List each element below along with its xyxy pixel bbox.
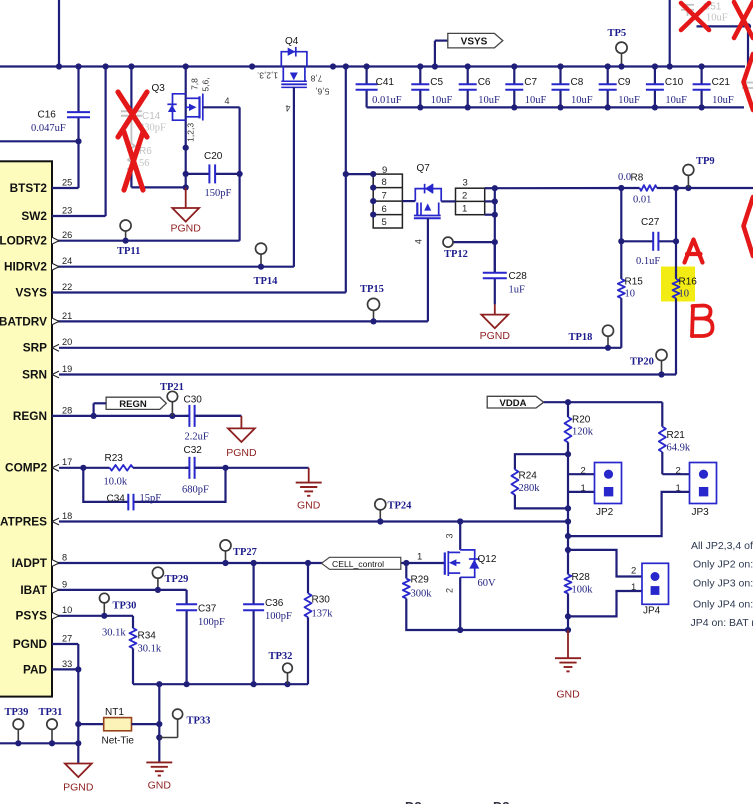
svg-text:JP4: JP4 (643, 606, 661, 617)
svg-text:9: 9 (62, 579, 67, 589)
svg-text:PGND: PGND (480, 330, 511, 342)
svg-text:5,6,: 5,6, (201, 77, 211, 91)
svg-text:GND: GND (556, 689, 580, 701)
svg-text:10: 10 (679, 289, 690, 300)
svg-text:TP9: TP9 (696, 156, 715, 167)
svg-text:TP27: TP27 (233, 547, 257, 558)
svg-text:JP4 on: BAT removed: JP4 on: BAT removed (691, 617, 753, 629)
svg-text:1: 1 (631, 582, 636, 593)
svg-text:BATDRV: BATDRV (0, 314, 47, 328)
svg-text:IBAT: IBAT (20, 583, 47, 597)
svg-text:BTST2: BTST2 (10, 181, 48, 195)
svg-text:680pF: 680pF (182, 485, 209, 496)
svg-text:26: 26 (62, 230, 72, 240)
svg-text:GND: GND (297, 499, 321, 511)
svg-text:HIDRV2: HIDRV2 (4, 260, 47, 274)
svg-text:10uF: 10uF (525, 95, 547, 106)
svg-text:VSYS: VSYS (461, 36, 488, 47)
svg-text:8: 8 (382, 177, 387, 188)
svg-text:137k: 137k (312, 608, 334, 619)
svg-text:1,2,3: 1,2,3 (185, 123, 195, 142)
svg-text:R28: R28 (572, 572, 591, 583)
svg-text:10uF: 10uF (571, 95, 593, 106)
svg-text:2: 2 (462, 190, 467, 201)
svg-text:60V: 60V (478, 578, 497, 589)
svg-text:D2: D2 (405, 799, 422, 804)
svg-text:TP12: TP12 (444, 249, 468, 260)
svg-text:Q12: Q12 (478, 554, 497, 565)
svg-text:100pF: 100pF (265, 611, 292, 622)
svg-text:JP3: JP3 (692, 507, 710, 518)
svg-text:CELL_control: CELL_control (332, 559, 384, 569)
svg-text:R21: R21 (667, 430, 686, 441)
svg-text:2: 2 (676, 465, 681, 476)
svg-text:300k: 300k (411, 589, 433, 600)
svg-text:100pF: 100pF (198, 617, 225, 628)
svg-text:150pF: 150pF (205, 188, 232, 199)
svg-text:10: 10 (62, 605, 72, 615)
svg-text:TP39: TP39 (5, 707, 29, 718)
svg-text:TP5: TP5 (608, 28, 627, 39)
svg-text:TP11: TP11 (117, 246, 140, 257)
svg-text:8: 8 (62, 552, 67, 562)
svg-text:2: 2 (631, 565, 636, 576)
svg-text:C8: C8 (571, 77, 584, 88)
svg-text:27: 27 (62, 633, 72, 643)
svg-text:21: 21 (62, 311, 72, 321)
svg-text:33: 33 (62, 659, 72, 669)
svg-text:C20: C20 (204, 151, 223, 162)
svg-text:SW2: SW2 (21, 209, 47, 223)
svg-text:6: 6 (382, 204, 387, 215)
svg-text:10uF: 10uF (706, 13, 728, 24)
svg-text:7,8: 7,8 (190, 78, 200, 90)
svg-text:1: 1 (417, 551, 422, 562)
svg-text:PAD: PAD (23, 662, 48, 676)
svg-text:BATPRES: BATPRES (0, 514, 47, 528)
svg-text:D3: D3 (493, 799, 510, 804)
svg-text:4: 4 (225, 96, 230, 106)
svg-text:VSYS: VSYS (16, 285, 48, 299)
svg-text:C21: C21 (712, 77, 731, 88)
svg-text:1,2,3.: 1,2,3. (257, 71, 278, 81)
svg-text:Net-Tie: Net-Tie (102, 736, 135, 747)
svg-text:C32: C32 (184, 445, 203, 456)
svg-text:10uF: 10uF (618, 95, 640, 106)
svg-text:5: 5 (382, 217, 387, 228)
svg-text:TP29: TP29 (165, 574, 189, 585)
svg-text:PSYS: PSYS (16, 609, 48, 623)
svg-text:C6: C6 (478, 77, 491, 88)
svg-text:Q4: Q4 (285, 36, 299, 47)
svg-text:280k: 280k (519, 483, 541, 494)
svg-text:R34: R34 (138, 630, 157, 641)
svg-text:10uF: 10uF (712, 95, 734, 106)
svg-text:15pF: 15pF (140, 493, 162, 504)
svg-text:LODRV2: LODRV2 (0, 234, 47, 248)
svg-text:64.9k: 64.9k (667, 442, 691, 453)
svg-text:C9: C9 (618, 77, 631, 88)
svg-text:25: 25 (62, 177, 72, 187)
svg-text:COMP2: COMP2 (5, 461, 47, 475)
svg-text:R23: R23 (105, 453, 124, 464)
svg-text:30.1k: 30.1k (138, 643, 162, 654)
svg-text:PGND: PGND (63, 782, 94, 794)
svg-text:JP2: JP2 (596, 507, 614, 518)
svg-text:TP18: TP18 (569, 332, 593, 343)
svg-text:R16: R16 (679, 276, 698, 287)
svg-text:0.047uF: 0.047uF (31, 123, 66, 134)
svg-text:TP33: TP33 (187, 715, 211, 726)
svg-text:TP21: TP21 (160, 382, 184, 393)
svg-text:Q7: Q7 (417, 163, 431, 174)
svg-text:R30: R30 (312, 594, 331, 605)
svg-text:PGND: PGND (171, 222, 202, 234)
svg-text:1uF: 1uF (509, 285, 526, 296)
svg-text:0.1uF: 0.1uF (636, 256, 660, 267)
svg-text:Only JP2 on: 1 cell: Only JP2 on: 1 cell (693, 559, 753, 571)
svg-text:NT1: NT1 (105, 707, 124, 718)
svg-text:IADPT: IADPT (12, 556, 48, 570)
svg-text:0.0: 0.0 (618, 172, 631, 183)
svg-text:C5: C5 (430, 77, 443, 88)
svg-text:C27: C27 (641, 217, 660, 228)
svg-text:Only JP4 on: 3 cells: Only JP4 on: 3 cells (693, 598, 753, 610)
svg-text:10: 10 (625, 289, 636, 300)
svg-text:SRN: SRN (22, 367, 47, 381)
svg-text:3: 3 (463, 177, 468, 188)
svg-text:4: 4 (285, 103, 290, 113)
svg-text:7,8: 7,8 (310, 74, 322, 84)
svg-text:C41: C41 (376, 77, 395, 88)
svg-text:C30: C30 (184, 395, 203, 406)
svg-text:56: 56 (139, 158, 150, 169)
svg-text:Q3: Q3 (152, 83, 166, 94)
svg-text:17: 17 (62, 457, 72, 467)
svg-text:C37: C37 (198, 604, 217, 615)
svg-text:120k: 120k (572, 426, 594, 437)
svg-text:10uF: 10uF (431, 95, 453, 106)
svg-text:C10: C10 (665, 77, 684, 88)
svg-text:C28: C28 (509, 271, 528, 282)
svg-text:SRP: SRP (23, 341, 47, 355)
svg-text:VDDA: VDDA (500, 398, 527, 409)
svg-text:TP32: TP32 (269, 651, 293, 662)
svg-text:10uF: 10uF (478, 95, 500, 106)
svg-text:3: 3 (445, 533, 455, 538)
svg-text:10uF: 10uF (665, 95, 687, 106)
svg-text:R24: R24 (519, 470, 538, 481)
svg-text:TP30: TP30 (113, 601, 137, 612)
svg-text:GND: GND (148, 780, 172, 792)
svg-text:18: 18 (62, 511, 72, 521)
svg-text:2.2uF: 2.2uF (185, 431, 209, 442)
svg-text:7: 7 (382, 190, 387, 201)
svg-text:C34: C34 (107, 494, 126, 505)
svg-text:REGN: REGN (13, 409, 47, 423)
svg-text:R6: R6 (139, 146, 152, 157)
svg-text:PGND: PGND (13, 637, 48, 651)
svg-text:5,6,: 5,6, (315, 87, 329, 97)
svg-text:C14: C14 (142, 111, 161, 122)
svg-text:23: 23 (62, 205, 72, 215)
svg-text:R20: R20 (572, 414, 591, 425)
svg-text:PGND: PGND (226, 447, 257, 459)
svg-text:22: 22 (62, 282, 72, 292)
svg-text:10.0k: 10.0k (104, 476, 128, 487)
svg-text:2: 2 (581, 465, 586, 476)
svg-text:C16: C16 (38, 109, 57, 120)
svg-text:REGN: REGN (119, 399, 147, 410)
svg-text:19: 19 (62, 364, 72, 374)
svg-text:2: 2 (445, 588, 455, 593)
svg-text:24: 24 (62, 256, 72, 266)
svg-text:20: 20 (62, 337, 72, 347)
svg-text:28: 28 (62, 405, 72, 415)
svg-text:100k: 100k (572, 584, 594, 595)
svg-text:C7: C7 (524, 77, 537, 88)
svg-text:TP20: TP20 (630, 357, 654, 368)
svg-text:0.01uF: 0.01uF (372, 95, 402, 106)
svg-text:TP24: TP24 (388, 500, 413, 511)
svg-text:4: 4 (414, 239, 424, 244)
svg-text:All JP2,3,4 off: 4 cells: All JP2,3,4 off: 4 cells (691, 540, 753, 552)
svg-text:C36: C36 (265, 598, 284, 609)
svg-text:1: 1 (581, 483, 586, 494)
svg-text:0.01: 0.01 (633, 195, 651, 206)
svg-text:1: 1 (462, 204, 467, 215)
svg-text:Only JP3 on: 2 cells: Only JP3 on: 2 cells (693, 578, 753, 590)
svg-text:R29: R29 (411, 575, 430, 586)
svg-text:TP14: TP14 (254, 276, 279, 287)
svg-text:9: 9 (382, 165, 387, 176)
svg-text:R15: R15 (625, 276, 644, 287)
svg-text:TP31: TP31 (39, 707, 63, 718)
svg-text:TP15: TP15 (360, 284, 384, 295)
svg-text:30.1k: 30.1k (102, 627, 126, 638)
svg-text:R8: R8 (631, 173, 644, 184)
